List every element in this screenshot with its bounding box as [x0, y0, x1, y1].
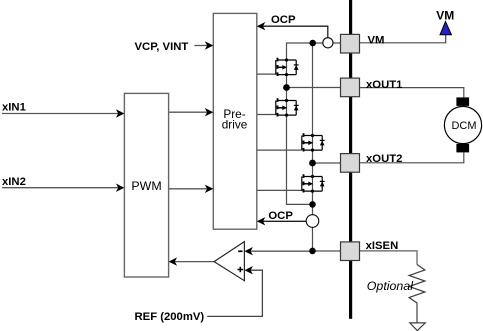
op-amp U1 non-inverting input mark	[238, 267, 244, 273]
wire: dark signal wires group	[207, 26, 328, 316]
ground	[410, 323, 426, 331]
arrow into PWM xIN1	[116, 109, 125, 117]
arrow into comparator minus	[244, 247, 253, 255]
wire: comparator plus input from REF	[207, 270, 262, 316]
svg-text:xIN1: xIN1	[2, 102, 26, 114]
arrow into comparator plus	[244, 266, 253, 274]
svg-text:drive: drive	[222, 118, 248, 132]
OCP sensor circle bottom	[306, 215, 319, 228]
motor DCM body	[444, 106, 481, 143]
node junction top rail	[309, 40, 316, 47]
wire: gate HS FET1	[257, 73, 276, 75]
transistor HS FET2	[302, 133, 325, 151]
arrow OCP top into Pre-drive	[257, 22, 266, 30]
VM supply triangle	[440, 22, 451, 35]
svg-text:xOUT1: xOUT1	[366, 79, 402, 91]
arrow into Pre-drive upper	[205, 108, 214, 116]
pad xOUT1	[341, 78, 360, 97]
wire: VCP VINT input	[194, 45, 207, 47]
pad VM	[341, 34, 360, 53]
arrow into Pre-drive lower	[205, 185, 214, 193]
svg-text:xOUT2: xOUT2	[366, 153, 402, 165]
op-amp comparator U1	[214, 242, 244, 281]
wire: OCP top	[263, 26, 328, 37]
wire: PWM to Pre-drive upper	[169, 111, 208, 113]
wire: xOUT2 pad to motor bottom	[360, 152, 464, 162]
pad xOUT2	[341, 154, 360, 173]
wire: xIN2 input	[2, 187, 119, 189]
OCP sensor circle top	[323, 38, 333, 48]
block PWM	[124, 93, 168, 277]
wire: xISEN node to pad	[313, 250, 341, 252]
wire: gate LS FET1	[257, 114, 276, 116]
wire: xOUT2 node to pad	[313, 162, 341, 164]
pad xISEN	[341, 242, 360, 261]
arrow into Pre-drive VCP	[205, 41, 214, 49]
wire: signal wires group	[2, 46, 313, 262]
node xOUT1	[283, 84, 290, 91]
motor DCM bottom terminal	[456, 144, 469, 153]
node xISEN	[309, 248, 316, 255]
svg-text:xISEN: xISEN	[366, 240, 399, 252]
node source join	[309, 201, 316, 208]
transistor LS FET2	[302, 174, 325, 192]
node xOUT2	[309, 160, 316, 167]
svg-text:VM: VM	[436, 8, 454, 22]
svg-text:OCP: OCP	[271, 14, 296, 26]
wire: PWM gray power wires group	[257, 35, 464, 251]
transistor HS FET1	[276, 58, 299, 76]
svg-text:OCP: OCP	[268, 210, 293, 222]
arrow comparator out into PWM	[169, 257, 178, 265]
arrow OCP bottom into Pre-drive	[257, 217, 266, 225]
wire: PWM to Pre-drive lower	[169, 188, 208, 190]
transistor LS FET1	[276, 98, 299, 116]
svg-text:Optional: Optional	[367, 279, 414, 293]
wire: comparator output to PWM	[174, 261, 214, 263]
arrow into PWM xIN2	[116, 184, 125, 192]
svg-text:PWM: PWM	[131, 179, 161, 193]
resistor R optional sense	[409, 265, 425, 323]
svg-text:DCM: DCM	[451, 120, 476, 132]
wire: comparator minus input from xISEN node	[250, 250, 312, 252]
wire: xISEN to optional resistor	[360, 251, 418, 265]
wire: xOUT1 node to pad	[287, 87, 341, 89]
wire: xIN1 input	[2, 113, 119, 115]
wire: VM pad to VM supply arrow	[360, 35, 446, 43]
wire: gate LS FET2	[257, 189, 302, 191]
bus: main vertical power bus	[349, 0, 352, 319]
svg-text:REF (200mV): REF (200mV)	[135, 311, 205, 323]
wire: HB1 drain-source vertical through FETs	[287, 42, 313, 204]
motor DCM top terminal	[456, 97, 469, 106]
wire: xOUT1 pad to motor top	[360, 88, 464, 98]
wire: HB2 drain-source vertical through FETs down to xISEN node	[312, 43, 314, 251]
svg-text:VM: VM	[368, 34, 385, 46]
wire: top rail y43 from HB1 drain corner to VM pad	[287, 42, 341, 44]
op-amp U1 inverting input mark	[238, 250, 242, 252]
wire: OCP bottom	[263, 220, 307, 222]
svg-text:xIN2: xIN2	[2, 176, 26, 188]
wire: gate HS FET2	[257, 149, 302, 151]
block Pre-drive	[213, 13, 256, 229]
svg-text:VCP, VINT: VCP, VINT	[135, 41, 189, 53]
